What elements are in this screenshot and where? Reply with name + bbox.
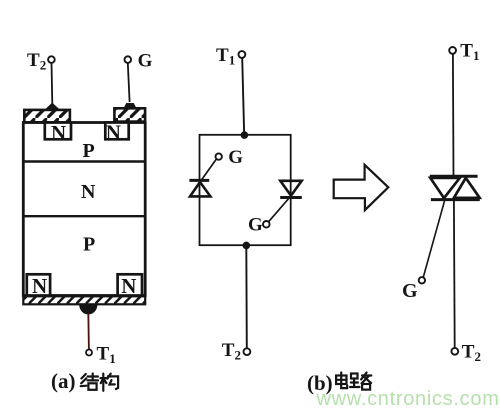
gate terminal V1 (216, 153, 222, 159)
junction node top (241, 131, 249, 139)
caption character dian (336, 373, 347, 389)
metal contact G (114, 108, 145, 121)
svg-text:T2: T2 (27, 50, 46, 73)
bottom metal electrode (hatched strip) (23, 296, 145, 304)
terminal G (125, 56, 132, 63)
terminal T2 (48, 56, 55, 63)
svg-text:T2: T2 (222, 340, 241, 363)
junction node bottom (243, 242, 251, 250)
gate terminal V2 (263, 221, 270, 228)
triac bottom bar (431, 198, 480, 201)
big arrow (334, 165, 389, 210)
gate wire V2 (268, 199, 289, 223)
svg-text:N: N (106, 120, 121, 144)
solder dome on G contact (124, 103, 136, 108)
wire T2 (51, 63, 54, 104)
terminal T1 (triac) (449, 47, 456, 54)
loop rectangle (200, 135, 291, 245)
solder dome T1 (bottom) (79, 305, 97, 315)
svg-text:T1: T1 (97, 344, 116, 367)
N well left (45, 123, 71, 140)
svg-text:T1: T1 (460, 40, 479, 63)
svg-text:N: N (81, 181, 96, 203)
structure body outline (23, 123, 145, 296)
svg-text:G: G (402, 280, 418, 302)
thyristor V2 (right, pointing down) (280, 181, 302, 198)
wire top (242, 58, 244, 135)
svg-text:N: N (51, 121, 66, 145)
svg-text:(a): (a) (51, 369, 76, 393)
triac top bar (430, 175, 478, 178)
svg-text:G: G (248, 215, 263, 236)
caption character jie (81, 374, 98, 390)
svg-text:P: P (83, 234, 95, 256)
terminal T2 (triac) (451, 348, 458, 355)
gate wire (triac) (423, 201, 444, 278)
N well right (105, 123, 128, 140)
N region bottom right (118, 274, 142, 295)
caption character gou (101, 374, 119, 391)
N region bottom left (27, 274, 50, 295)
gate terminal (triac) (419, 277, 425, 283)
terminal T1 (circuit) (239, 51, 246, 58)
triac right triangle (454, 178, 480, 198)
svg-text:N: N (121, 274, 136, 298)
caption character lu (350, 373, 371, 390)
thyristor V1 (left, pointing up) (189, 180, 210, 196)
svg-text:T1: T1 (216, 45, 235, 68)
svg-text:G: G (138, 50, 153, 71)
wire bottom (245, 245, 248, 348)
junction line P/N (25, 160, 145, 162)
terminal T2 (circuit) (244, 348, 251, 355)
solder dome on T2 contact (45, 103, 60, 110)
wire bottom (triac) (453, 201, 456, 348)
gate wire V1 (202, 159, 217, 180)
wire top (triac) (452, 54, 455, 176)
svg-text:N: N (32, 274, 47, 298)
triac left triangle (430, 178, 460, 198)
metal contact T2 (24, 110, 70, 122)
svg-text:www.cntronics.com: www.cntronics.com (316, 388, 500, 410)
svg-text:G: G (228, 147, 243, 168)
svg-text:T2: T2 (462, 342, 481, 365)
wire G (128, 63, 130, 102)
wire T1 (dark red) (87, 313, 90, 350)
terminal T1 (86, 350, 92, 356)
svg-text:P: P (83, 140, 95, 162)
junction line N/P (25, 215, 145, 217)
